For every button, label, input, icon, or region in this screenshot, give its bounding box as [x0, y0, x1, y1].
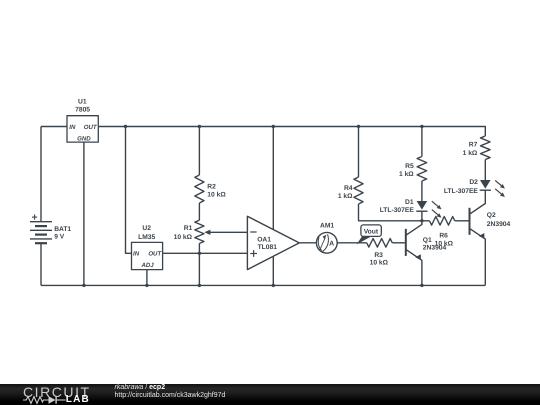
- svg-text:GND: GND: [77, 136, 91, 143]
- svg-text:R1: R1: [184, 225, 193, 232]
- svg-text:R5: R5: [405, 163, 414, 170]
- svg-text:ADJ: ADJ: [140, 262, 154, 269]
- svg-text:10 kΩ: 10 kΩ: [174, 234, 193, 241]
- svg-text:7805: 7805: [75, 107, 90, 114]
- svg-text:R4: R4: [344, 185, 353, 192]
- svg-text:10 kΩ: 10 kΩ: [207, 192, 226, 199]
- svg-text:OA1: OA1: [257, 237, 271, 244]
- svg-text:1 kΩ: 1 kΩ: [338, 193, 353, 200]
- svg-text:IN: IN: [133, 250, 140, 257]
- svg-text:BAT1: BAT1: [54, 226, 71, 233]
- svg-text:1 kΩ: 1 kΩ: [463, 150, 478, 157]
- svg-text:TL081: TL081: [258, 244, 278, 251]
- svg-text:R2: R2: [207, 184, 216, 191]
- svg-text:U2: U2: [142, 225, 151, 232]
- svg-text:AM1: AM1: [320, 222, 334, 229]
- svg-text:LM35: LM35: [138, 234, 155, 241]
- svg-text:U1: U1: [78, 98, 87, 105]
- svg-text:10 kΩ: 10 kΩ: [370, 260, 389, 267]
- svg-text:1 kΩ: 1 kΩ: [399, 171, 414, 178]
- svg-text:Q1: Q1: [423, 237, 432, 244]
- svg-text:2N3904: 2N3904: [487, 221, 511, 228]
- svg-text:2N3904: 2N3904: [423, 244, 447, 251]
- svg-text:LTL-307EE: LTL-307EE: [444, 188, 479, 195]
- svg-text:OUT: OUT: [148, 250, 162, 257]
- svg-text:IN: IN: [69, 124, 76, 131]
- svg-text:OUT: OUT: [84, 124, 98, 131]
- svg-text:9 V: 9 V: [54, 233, 65, 240]
- svg-text:LTL-307EE: LTL-307EE: [380, 207, 415, 214]
- svg-text:D2: D2: [469, 179, 478, 186]
- svg-text:R3: R3: [374, 252, 383, 259]
- svg-text:R7: R7: [469, 142, 478, 149]
- svg-text:R6: R6: [439, 232, 448, 239]
- svg-text:D1: D1: [405, 199, 414, 206]
- svg-text:Vout: Vout: [364, 228, 379, 235]
- svg-text:A: A: [329, 240, 334, 247]
- svg-text:Q2: Q2: [487, 212, 496, 219]
